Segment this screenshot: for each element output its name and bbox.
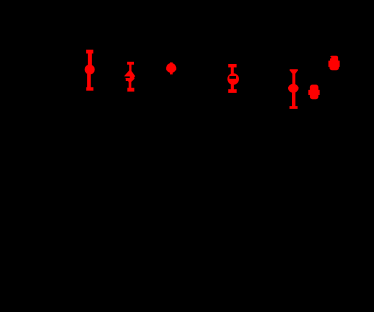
upper limit top bar xyxy=(290,69,298,71)
data point group 1 (x=89.7): filled circle with double error bar xyxy=(85,50,95,91)
lower marker mass xyxy=(330,60,339,71)
error bar upper line xyxy=(88,53,92,66)
up triangle marker xyxy=(125,70,135,76)
upper marker mass xyxy=(330,56,338,62)
error bar top cap xyxy=(228,64,236,67)
merged error bar caps xyxy=(166,67,176,70)
error bar upper line xyxy=(129,64,131,72)
data point group 7 (x=334.2): stacked markers with merged caps xyxy=(328,56,339,70)
error bar lower line xyxy=(129,81,132,89)
stacked marker blob xyxy=(310,85,319,100)
data point group 3 (x=171.2): filled circle, small error bar with caps xyxy=(166,62,176,74)
error bar bottom cap xyxy=(228,89,237,93)
black slot inside circle xyxy=(229,76,236,79)
line between triangle and circle xyxy=(292,74,295,85)
error bar bottom cap xyxy=(127,88,134,92)
merged error bar caps xyxy=(308,90,319,95)
data point group 2 (x=130): up+down triangle markers with error bar xyxy=(124,62,135,92)
down triangle marker xyxy=(126,79,134,83)
black notch xyxy=(124,76,130,78)
black notch top-left xyxy=(330,57,331,59)
error bar upper line xyxy=(231,67,234,75)
left bar nub xyxy=(126,79,128,81)
merged small caps at circle xyxy=(288,87,298,90)
data point group 4 (x=232.8): half-filled circle with error bar xyxy=(227,64,239,93)
marker circle xyxy=(227,73,239,85)
error bar lower line xyxy=(292,92,295,107)
marker circle xyxy=(166,63,176,73)
data point group 6 (x=314.1): stacked markers with merged caps xyxy=(308,85,319,100)
short error bar line xyxy=(170,62,173,74)
error bar top cap xyxy=(86,50,93,54)
error bar lower line xyxy=(231,84,234,90)
down triangle marker xyxy=(290,70,297,75)
marker circle xyxy=(85,64,95,74)
error bar bottom cap xyxy=(86,87,93,91)
right line band xyxy=(130,76,135,79)
error bar top cap xyxy=(127,62,134,65)
merged error bar caps xyxy=(328,61,339,67)
error bar bottom cap xyxy=(290,106,298,109)
error bar lower line xyxy=(87,74,91,88)
marker circle xyxy=(288,84,298,93)
data point group 5 (x=293.6): down-triangle upper limit + circle with error bar xyxy=(288,69,298,109)
